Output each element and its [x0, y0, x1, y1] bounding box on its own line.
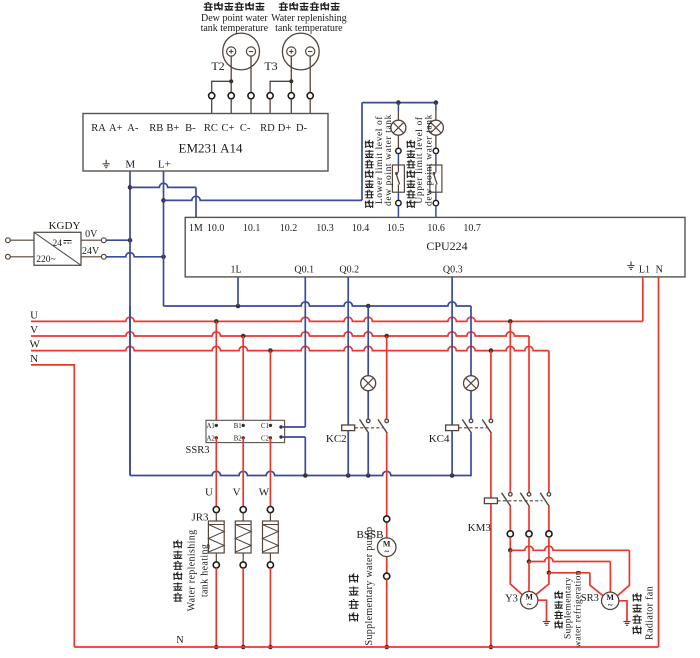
svg-text:U: U	[30, 309, 38, 321]
label: Water replenishing tank heating (EN)	[186, 530, 210, 612]
svg-text:Supplementary: Supplementary	[564, 577, 574, 639]
svg-text:1L: 1L	[230, 265, 241, 276]
wire M to CPU 1M (hops L+)	[130, 183, 196, 217]
svg-text:dew point water tank: dew point water tank	[424, 114, 434, 206]
svg-text:A-: A-	[127, 123, 139, 134]
KC4 main contact to KM3 coil	[482, 419, 493, 498]
labels U V W above heaters	[205, 487, 270, 499]
svg-text:RC: RC	[204, 123, 218, 134]
svg-text:10.4: 10.4	[352, 223, 370, 234]
svg-text:CPU224: CPU224	[426, 239, 467, 253]
wire lamp to KC4 aux contact	[470, 390, 472, 419]
mechanical link of KC2	[355, 427, 383, 429]
svg-text:KC4: KC4	[429, 433, 450, 445]
contactor coil KM3	[468, 498, 498, 649]
svg-text:24: 24	[53, 239, 63, 249]
svg-text:B1: B1	[234, 423, 242, 430]
temperature sensor T3	[264, 33, 319, 73]
svg-text:EM231 A14: EM231 A14	[179, 141, 243, 156]
label: dew point water tank upper limit (CN)	[406, 140, 415, 208]
analog module EM231 A14	[83, 114, 328, 172]
label: water replenishing tank heating (CN)	[173, 540, 182, 601]
svg-text:B2: B2	[234, 435, 243, 442]
svg-text:T2: T2	[211, 59, 224, 73]
svg-text:V: V	[233, 487, 241, 499]
wire 1L drop	[237, 277, 239, 306]
svg-text:V: V	[30, 324, 38, 336]
svg-text:10.2: 10.2	[280, 223, 298, 234]
svg-text:L1: L1	[639, 265, 650, 276]
wire W to SSR3 C1	[269, 351, 271, 426]
svg-text:JR3: JR3	[191, 512, 209, 524]
wire L+ to level-switch bus (hops 1M drop)	[164, 103, 363, 201]
node N neutral line	[30, 353, 74, 647]
indicator lamp of KC4	[464, 306, 479, 391]
label: Radiator fan (EN)	[645, 586, 656, 640]
svg-text:D-: D-	[296, 123, 308, 134]
svg-text:Y3: Y3	[505, 594, 518, 605]
wire L+ rail vertical	[161, 171, 166, 306]
svg-text:KC2: KC2	[326, 433, 347, 445]
svg-text:10.5: 10.5	[387, 223, 405, 234]
wire KM3 pole3 to motors (W)	[536, 537, 604, 596]
svg-text:A+: A+	[109, 123, 123, 134]
KC2 main contact to water pump	[378, 419, 389, 538]
svg-text:10.6: 10.6	[427, 223, 445, 234]
label: dew point water tank temperature (CN)	[204, 2, 265, 10]
svg-text:Q0.1: Q0.1	[294, 265, 314, 276]
wires from sensor T3 to terminals	[270, 56, 310, 93]
wire lamp to KC2 aux contact	[367, 390, 369, 419]
svg-text:0V: 0V	[85, 229, 98, 240]
wire CPU Q0.1 to SSR3 control +	[283, 277, 306, 427]
svg-text:A1: A1	[206, 423, 214, 430]
wire U to SSR3 A1	[215, 321, 217, 425]
svg-text:N: N	[176, 635, 183, 646]
contactor coil KC2 fed from Q0.2	[326, 277, 355, 476]
svg-text:SR3: SR3	[581, 593, 599, 604]
KGDY output terminals 0V and 24V	[81, 229, 106, 259]
svg-text:Q0.2: Q0.2	[339, 265, 359, 276]
svg-text:B-: B-	[185, 123, 196, 134]
label: Supplementary water pump (EN)	[364, 527, 375, 646]
wire 0V bus (hops heater drops and pump drop)	[130, 306, 471, 478]
svg-text:C1: C1	[261, 423, 269, 430]
earth terminal of CPU224	[627, 262, 634, 270]
svg-text:tank heating: tank heating	[200, 544, 211, 597]
label: Lower limit level of dew point water tank (EN)	[374, 114, 394, 206]
svg-text:T3: T3	[264, 59, 277, 73]
svg-text:10.1: 10.1	[243, 223, 261, 234]
label: Dew point water tank temperature (EN)	[201, 13, 269, 34]
wire M rail vertical	[128, 171, 133, 476]
svg-text:Supplementary water pump: Supplementary water pump	[364, 527, 375, 646]
svg-text:N: N	[30, 353, 38, 365]
svg-text:1M: 1M	[189, 223, 203, 234]
level-switch supply bus	[362, 100, 438, 105]
label: radiator fan (CN)	[632, 593, 642, 635]
power supply KGDY 220V to 24V	[34, 220, 81, 265]
label: Water replenishing tank temperature (EN)	[271, 13, 347, 34]
svg-text:SSR3: SSR3	[186, 445, 210, 456]
label: supplementary water pump (CN)	[349, 573, 359, 621]
wire V drop to KM3 pole 2	[528, 336, 530, 493]
temperature sensor T2	[211, 33, 259, 73]
svg-text:Q0.3: Q0.3	[443, 265, 463, 276]
wire V to SSR3 B1	[242, 336, 244, 425]
motor Y3 supplementary water refrigeration	[505, 592, 550, 626]
svg-text:C+: C+	[222, 123, 235, 134]
KGDY input terminals	[6, 238, 35, 259]
label: dew point water tank lower limit (CN)	[365, 140, 374, 208]
earth terminal of EM231	[103, 160, 110, 168]
wire V phase to KC2 main contact	[386, 336, 388, 419]
svg-text:Radiator fan: Radiator fan	[645, 586, 656, 640]
wire CPU N to neutral	[658, 277, 660, 647]
svg-text:220~: 220~	[36, 255, 55, 265]
label: Upper limit level of dew point water tank (EN)	[414, 114, 434, 206]
heater element JR3 phase U	[208, 438, 224, 649]
wire KM3 pole1 to motors (U)	[508, 537, 629, 596]
svg-text:N: N	[656, 265, 663, 276]
label: water replenishing tank temperature (CN)	[279, 2, 340, 10]
wire U drop to KM3 pole 1	[509, 321, 511, 492]
level switch (lower limit) to CPU input	[392, 135, 404, 217]
svg-text:D+: D+	[278, 123, 292, 134]
KM3 main contacts	[497, 493, 552, 538]
label JR3	[191, 512, 209, 524]
wire +24V bus to 1L (hops Q0.1 Q0.2 drops)	[164, 302, 472, 309]
svg-text:RB: RB	[149, 123, 163, 134]
wire 0V to M rail	[106, 238, 132, 243]
contactor coil KC4 fed from Q0.3	[429, 277, 459, 476]
indicator lamp for upper level of dew point water tank	[428, 103, 443, 136]
label: supplementary water refrigeration (CN)	[554, 591, 563, 629]
svg-text:A2: A2	[206, 435, 215, 442]
svg-text:W: W	[259, 487, 270, 499]
svg-text:water refrigeration: water refrigeration	[572, 570, 583, 648]
svg-text:KM3: KM3	[468, 522, 492, 534]
svg-text:Water replenishing: Water replenishing	[271, 13, 347, 24]
svg-text:M: M	[125, 159, 135, 171]
node V phase line	[30, 324, 529, 338]
supplementary water pump BSSB	[357, 516, 396, 649]
heater element JR3 phase W	[263, 438, 279, 649]
node N bottom line	[74, 635, 658, 647]
svg-text:L+: L+	[158, 159, 171, 171]
indicator lamp for lower level of dew point water tank	[391, 103, 406, 136]
wire KM3 pole2 to motors (V)	[527, 537, 611, 592]
svg-text:C2: C2	[261, 435, 270, 442]
svg-text:24V: 24V	[82, 246, 100, 257]
terminal circles under sensor T2	[209, 93, 255, 114]
svg-text:U: U	[205, 487, 213, 499]
terminal circles under sensor T3	[267, 93, 313, 114]
svg-text:~: ~	[384, 546, 389, 556]
node U phase line	[30, 309, 643, 323]
svg-text:10.3: 10.3	[316, 223, 334, 234]
svg-text:10.7: 10.7	[463, 223, 481, 234]
svg-text:tank temperature: tank temperature	[275, 23, 343, 34]
wire 24V to L+ rail (hops M rail)	[106, 253, 166, 259]
indicator lamp of KC2	[361, 306, 376, 391]
svg-text:~: ~	[608, 600, 613, 610]
svg-text:C-: C-	[240, 123, 251, 134]
wires from sensor T2 to terminals	[212, 56, 251, 93]
svg-text:Water replenishing: Water replenishing	[186, 530, 197, 612]
mechanical link of KC4	[459, 427, 487, 429]
PLC CPU224	[185, 217, 685, 277]
wire W drop to KM3 pole 3	[548, 351, 550, 493]
svg-text:tank temperature: tank temperature	[201, 23, 269, 34]
node W phase line	[30, 339, 549, 353]
level switch (upper limit) to CPU input	[430, 135, 442, 217]
heater element JR3 phase V	[235, 438, 251, 649]
wire CPU L1 to U phase	[642, 277, 644, 322]
svg-text:dew point water tank: dew point water tank	[384, 114, 394, 206]
KC4 aux contact (lamp)	[462, 419, 473, 476]
svg-text:Dew point water: Dew point water	[201, 13, 268, 24]
svg-text:RA: RA	[91, 123, 106, 134]
svg-text:RD: RD	[260, 123, 275, 134]
KC2 aux contact (lamp)	[360, 419, 371, 475]
label: Supplementary water refrigeration (EN)	[564, 570, 584, 648]
svg-text:B+: B+	[166, 123, 179, 134]
motor SR3 radiator fan	[581, 592, 631, 625]
wire SSR3 control - to 0V bus	[283, 437, 306, 476]
svg-text:KGDY: KGDY	[49, 220, 81, 232]
solid state relay SSR3	[186, 420, 285, 456]
svg-text:10.0: 10.0	[207, 223, 225, 234]
svg-text:~: ~	[527, 599, 532, 609]
wire W phase to KC4 main contact	[490, 351, 492, 420]
svg-text:W: W	[30, 339, 41, 351]
